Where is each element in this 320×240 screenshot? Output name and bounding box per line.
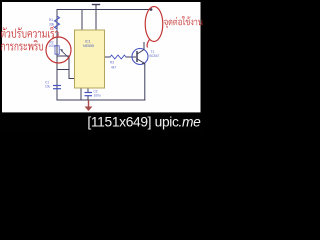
svg-text:R1: R1 [49, 18, 53, 22]
svg-text:100u: 100u [94, 94, 101, 98]
svg-text:BC547: BC547 [150, 54, 160, 58]
svg-text:33k: 33k [49, 23, 55, 27]
svg-text:NE555: NE555 [83, 44, 94, 48]
svg-text:4k7: 4k7 [111, 66, 116, 70]
svg-text:[1151x649] upic.me: [1151x649] upic.me [87, 114, 201, 129]
svg-text:R3: R3 [110, 61, 114, 65]
svg-text:IC1: IC1 [85, 40, 91, 44]
svg-text:100k: 100k [49, 44, 56, 48]
svg-text:10u: 10u [45, 85, 51, 89]
